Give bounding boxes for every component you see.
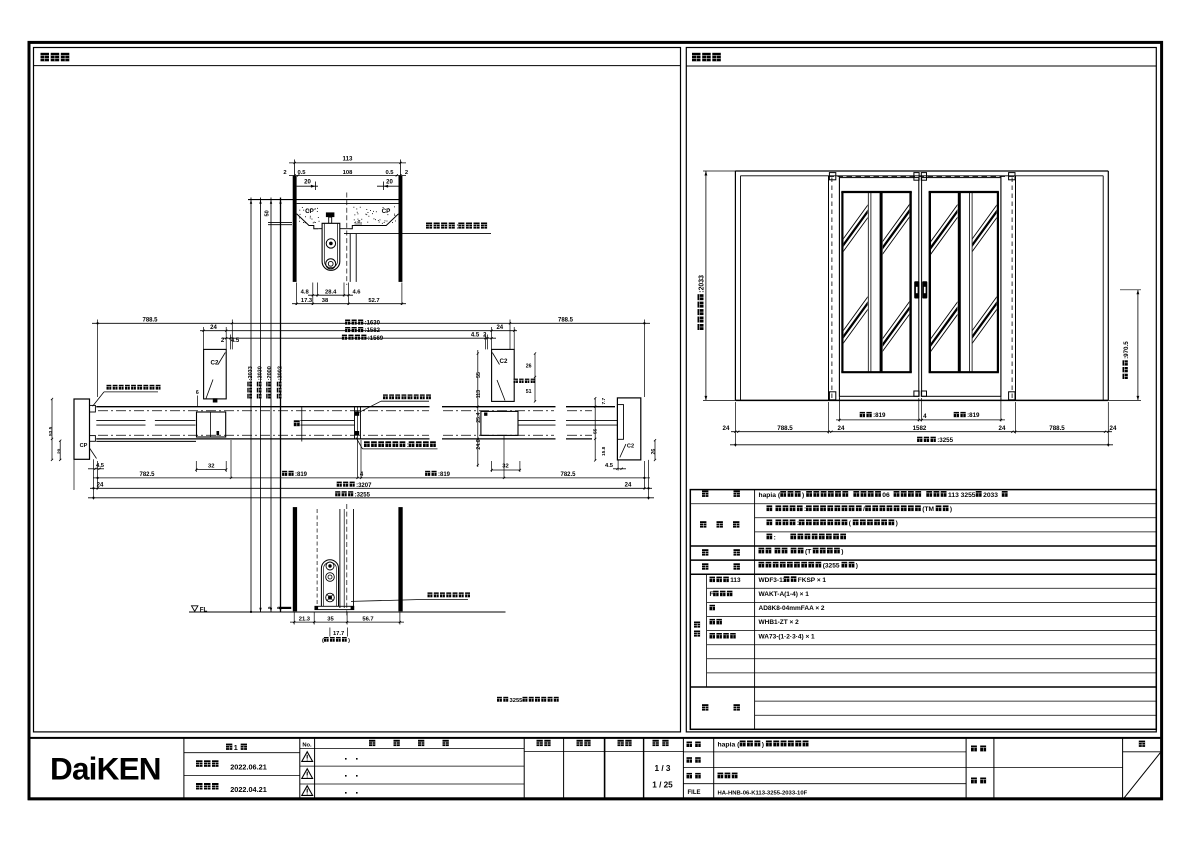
- head seal profile right: [350, 214, 399, 229]
- bottom detail inner lines: [317, 504, 353, 616]
- left cap dim lines: [48, 398, 74, 490]
- dim 20 right: [377, 180, 399, 190]
- svg-text:CP: CP: [80, 443, 88, 449]
- dim frame height 2033: [698, 171, 738, 400]
- row A small dims: [88, 460, 626, 472]
- svg-text::819: :819: [873, 412, 886, 419]
- svg-text:24: 24: [838, 425, 845, 432]
- left jamb box C2: [204, 349, 227, 402]
- svg-text:2: 2: [283, 170, 286, 176]
- dim row 21.3 35 56.7: [290, 616, 404, 623]
- label sectional view 断面図: [41, 53, 70, 62]
- dim line 3255: [88, 491, 654, 499]
- svg-text::819: :819: [438, 472, 451, 478]
- svg-text::3255: :3255: [355, 492, 371, 498]
- svg-text:788.5: 788.5: [1049, 425, 1065, 432]
- label CP right: [382, 208, 391, 215]
- leader hanging rail note: [344, 223, 491, 234]
- svg-text:782.5: 782.5: [139, 472, 155, 478]
- pocket jamb box in band: [197, 412, 226, 437]
- wall left edge: [735, 171, 740, 400]
- top detail lower ext lines: [297, 283, 402, 306]
- band top line: [96, 406, 615, 408]
- hanger bolt head: [326, 212, 335, 223]
- svg-text:3255: 3255: [510, 698, 524, 704]
- door 1 outline: [839, 178, 918, 397]
- svg-text:0.5: 0.5: [385, 170, 394, 176]
- svg-text:6: 6: [196, 390, 199, 396]
- right view panel title line: [686, 65, 1156, 67]
- svg-text:32: 32: [502, 464, 508, 470]
- svg-text:WA73-(1·2·3·4) × 1: WA73-(1·2·3·4) × 1: [759, 633, 816, 640]
- scale 1/3 1/25: [652, 764, 673, 790]
- frame right vertical: [1001, 176, 1016, 400]
- svg-text:20: 20: [386, 180, 393, 186]
- svg-text::: :: [407, 442, 409, 449]
- svg-text:2022.06.21: 2022.06.21: [230, 762, 267, 771]
- svg-text:20: 20: [304, 180, 311, 186]
- wall top lines: [735, 171, 1108, 176]
- svg-text::: :: [456, 224, 458, 231]
- svg-text:C2: C2: [500, 358, 508, 365]
- svg-text:HA-HNB-06-K113-3255-2033-10F: HA-HNB-06-K113-3255-2033-10F: [718, 791, 808, 797]
- label front view 正面図: [692, 53, 721, 62]
- spec table sub labels: [710, 577, 741, 639]
- svg-text:): ): [802, 492, 804, 499]
- band extra bottom line left: [96, 440, 196, 442]
- svg-text:24: 24: [999, 425, 1006, 432]
- svg-text:21.3: 21.3: [299, 616, 311, 622]
- page cell diagonal: [1124, 753, 1161, 799]
- roller lower wheel: [326, 259, 336, 269]
- svg-text::: :: [804, 506, 806, 513]
- svg-text:20: 20: [57, 448, 63, 454]
- bottom dim extension lines: [94, 436, 649, 500]
- dim line 24 3207 24: [90, 482, 652, 490]
- svg-text:(: (: [322, 638, 324, 644]
- svg-text:7.7: 7.7: [601, 397, 607, 404]
- dim row2 24 788.5 24 1582 24 788.5 24: [723, 425, 1117, 433]
- svg-text:108: 108: [343, 170, 353, 176]
- dim line 788.5 1630 788.5: [92, 318, 650, 327]
- svg-text:/: /: [863, 506, 865, 513]
- svg-text:38: 38: [322, 298, 329, 304]
- FL datum marker: [192, 606, 208, 614]
- vertical dimension lines cluster: [250, 198, 282, 614]
- frame left vertical: [829, 176, 840, 400]
- svg-text:782.5: 782.5: [560, 472, 576, 478]
- dim 17.7: [330, 628, 348, 638]
- svg-text:24: 24: [210, 325, 217, 331]
- svg-text::: :: [774, 534, 776, 541]
- svg-text:F: F: [710, 591, 714, 598]
- dim 6 left jamb: [196, 390, 199, 406]
- left wall end cap: [74, 399, 97, 459]
- svg-text::970.5: :970.5: [1123, 341, 1130, 359]
- frame head dashed line: [829, 175, 1016, 177]
- right wall end cap: [617, 398, 640, 460]
- svg-text:hapia (: hapia (: [759, 492, 781, 499]
- svg-text:788.5: 788.5: [558, 318, 574, 324]
- door 2 lite 4 diagonal stripes: [969, 200, 1001, 349]
- hanger rail bracket: [318, 228, 349, 230]
- floor line front view: [735, 399, 1108, 401]
- bottom detail right bar: [398, 507, 402, 611]
- svg-text:4: 4: [357, 219, 360, 224]
- svg-text::3255: :3255: [937, 437, 953, 444]
- DAIKEN logo: [50, 751, 161, 787]
- svg-text:788.5: 788.5: [777, 425, 793, 432]
- svg-text:): ): [762, 741, 764, 748]
- rotated dims 55 113 25.4 24.6: [476, 350, 482, 467]
- note door center: [322, 637, 350, 644]
- svg-text:53.5: 53.5: [48, 426, 54, 436]
- front dim extension lines: [735, 398, 1108, 447]
- svg-text:26: 26: [526, 363, 532, 369]
- svg-text:): ): [896, 520, 898, 527]
- svg-text:2: 2: [405, 170, 408, 176]
- spec table content values: [759, 491, 1008, 640]
- rotated height dimension labels: [247, 366, 283, 398]
- svg-text:788.5: 788.5: [142, 318, 158, 324]
- svg-text::2033: :2033: [698, 275, 705, 293]
- svg-text:50: 50: [265, 210, 271, 216]
- rail base plate: [315, 606, 354, 609]
- svg-text:4.5: 4.5: [471, 333, 480, 339]
- door 1 lite 2 diagonal stripes: [879, 199, 914, 356]
- svg-text:): ): [856, 563, 858, 570]
- top detail left frame bar: [293, 176, 297, 282]
- door 1 glass borders: [841, 192, 912, 372]
- extension lines to jamb boxes: [98, 320, 645, 398]
- svg-text:2022.04.21: 2022.04.21: [230, 785, 267, 794]
- svg-text:26: 26: [651, 449, 657, 455]
- svg-text:35: 35: [327, 616, 334, 622]
- svg-text:WAKT-A(1-4) × 1: WAKT-A(1-4) × 1: [759, 591, 810, 598]
- svg-text:52.7: 52.7: [368, 298, 379, 304]
- door 2 outline: [922, 178, 1001, 397]
- dim row frame width 3255: [730, 437, 1113, 446]
- roller upper wheel: [326, 239, 335, 248]
- revision dots: [345, 758, 358, 794]
- dim 113 extension lines: [295, 160, 401, 176]
- svg-text:51: 51: [526, 389, 532, 395]
- spec table row labels: [694, 491, 740, 711]
- svg-text:2033: 2033: [983, 492, 998, 499]
- svg-text:1 / 3: 1 / 3: [655, 764, 671, 773]
- door corner hardware marks: [829, 173, 1015, 400]
- svg-text:24: 24: [625, 482, 632, 488]
- svg-text:113: 113: [343, 156, 354, 163]
- svg-text:(TM: (TM: [922, 506, 934, 513]
- dim row 2 0.5 108 0.5 2: [283, 170, 408, 176]
- svg-text:24: 24: [723, 425, 730, 432]
- rotated small dims 9 9: [267, 606, 281, 609]
- svg-text::1569: :1569: [368, 336, 384, 342]
- rail screw bottom: [326, 593, 335, 602]
- top detail right frame bar: [399, 176, 403, 282]
- panel glyph in band: [294, 420, 300, 426]
- dim line 782.5 819 4 819 782.5: [93, 471, 650, 479]
- svg-text:28.4: 28.4: [325, 289, 337, 295]
- svg-text:55: 55: [476, 372, 482, 378]
- door panel lines in plan: [96, 420, 617, 425]
- svg-text:4.6: 4.6: [352, 289, 361, 295]
- small dim line at right cap: [593, 397, 608, 461]
- svg-text:): ): [841, 548, 843, 555]
- svg-text:hapia (: hapia (: [718, 741, 741, 748]
- svg-text:4.8: 4.8: [301, 289, 310, 295]
- wall right edge: [1103, 171, 1108, 400]
- door 2 glass borders: [929, 192, 999, 372]
- svg-text:17.7: 17.7: [333, 631, 344, 637]
- roller housing: [322, 223, 340, 270]
- svg-text:56.7: 56.7: [362, 616, 373, 622]
- dim 20 left: [297, 180, 318, 190]
- floor line: [189, 608, 506, 612]
- dim row 4.8 28.4 4.6: [301, 289, 362, 296]
- svg-text::1630: :1630: [365, 321, 381, 327]
- svg-text::1582: :1582: [365, 328, 381, 334]
- dim row door widths 819 4 819: [836, 412, 1005, 421]
- spec table grid: [690, 490, 1156, 730]
- door panel top edges: [350, 234, 356, 282]
- door 1 lite 1 diagonal stripes: [840, 200, 872, 349]
- ceiling line: [248, 199, 399, 201]
- band upper centerline: [98, 410, 592, 412]
- tiny dim 4 at rail: [355, 219, 363, 224]
- floor flat rail: [321, 560, 338, 606]
- svg-text:113: 113: [730, 577, 741, 584]
- svg-text:24: 24: [1110, 425, 1117, 432]
- svg-text:06: 06: [882, 492, 890, 499]
- dim line 24 1582 24: [200, 325, 517, 334]
- svg-text:(3255: (3255: [823, 563, 840, 570]
- band lower centerline: [98, 434, 592, 436]
- left view panel title line: [34, 65, 681, 67]
- svg-text:): ): [950, 506, 952, 513]
- svg-text:(T: (T: [805, 548, 811, 555]
- svg-text:WHB1-ZT × 2: WHB1-ZT × 2: [759, 619, 800, 626]
- svg-text:15.8: 15.8: [601, 446, 607, 456]
- dim handle height 970.5: [1108, 290, 1141, 401]
- vertical joint line in band: [301, 407, 303, 442]
- bottom detail left bar: [293, 507, 297, 611]
- rotated dim 50: [265, 210, 271, 216]
- meeting post in band: [355, 407, 361, 439]
- svg-text:32: 32: [208, 464, 214, 470]
- leader flat rail note: [351, 592, 470, 601]
- head jamb underside line: [297, 202, 399, 204]
- dim row 17.3 38 52.7: [292, 298, 406, 305]
- rail screw middle: [326, 573, 335, 582]
- rail screw top: [326, 562, 334, 570]
- svg-text:DaiKEN: DaiKEN: [50, 751, 161, 787]
- rail centerline dashed: [346, 193, 348, 286]
- svg-text::819: :819: [295, 472, 308, 478]
- svg-text:24.6: 24.6: [476, 439, 482, 449]
- svg-text::3207: :3207: [356, 483, 372, 489]
- svg-text:C2: C2: [627, 443, 634, 449]
- svg-text::: :: [797, 520, 799, 527]
- title block right texts: [687, 741, 1146, 797]
- meeting stile box in band: [481, 411, 518, 435]
- svg-text:1582: 1582: [913, 425, 927, 432]
- bottom detail ext lines: [294, 613, 400, 625]
- right view panel box: [686, 48, 1156, 732]
- svg-text:WDF3-11: WDF3-11: [759, 577, 787, 584]
- wall break double line: [268, 222, 292, 224]
- title block headers: [226, 740, 669, 752]
- svg-text:113 3255: 113 3255: [948, 492, 976, 499]
- leader door stop cap note: [93, 385, 161, 407]
- stipple hatch in head jamb: [299, 206, 396, 223]
- dim 113: [289, 156, 406, 164]
- svg-text::819: :819: [967, 412, 980, 419]
- door handle right: [922, 281, 927, 298]
- footnote width note: [497, 697, 559, 704]
- dim 26 right of cap: [651, 439, 657, 461]
- right jamb box C2: [492, 349, 515, 401]
- svg-text:55: 55: [593, 428, 599, 434]
- mohair seal label: [514, 379, 536, 383]
- label CP left: [305, 208, 314, 215]
- revision date rows: [196, 760, 267, 794]
- title block grid: [29, 738, 1162, 799]
- door handle left: [914, 281, 919, 298]
- leader dashed-line note: [357, 394, 431, 413]
- svg-text:17.3: 17.3: [301, 298, 313, 304]
- svg-text:4: 4: [923, 413, 927, 420]
- svg-text::2033: :2033: [248, 366, 254, 380]
- svg-text:1: 1: [234, 743, 238, 752]
- door 2 lite 3 diagonal stripes: [927, 199, 961, 356]
- svg-text::2000: :2000: [267, 366, 273, 380]
- svg-text:113: 113: [476, 390, 482, 398]
- band bottom line: [96, 438, 592, 440]
- leader door catch note: [356, 438, 438, 450]
- svg-text:AD8K8-04mmFAA × 2: AD8K8-04mmFAA × 2: [759, 605, 825, 612]
- dim 26 51 right jamb: [526, 352, 536, 402]
- svg-text:): ): [348, 638, 350, 644]
- svg-text:4.5: 4.5: [605, 463, 614, 469]
- svg-text::2002: :2002: [278, 366, 284, 380]
- svg-text::2030: :2030: [258, 366, 264, 380]
- head seal profile left: [297, 214, 319, 229]
- svg-text:24: 24: [496, 325, 503, 331]
- svg-text:FILE: FILE: [688, 790, 701, 796]
- svg-text:0.5: 0.5: [297, 170, 306, 176]
- svg-text:FKSP × 1: FKSP × 1: [798, 577, 827, 584]
- dim line 4.5 1569 4.5 2: [221, 333, 496, 345]
- svg-text:No.: No.: [302, 743, 312, 749]
- revision triangles: [302, 752, 313, 796]
- svg-text:1 / 25: 1 / 25: [652, 781, 673, 790]
- left view panel box: [34, 48, 681, 732]
- svg-text:C2: C2: [211, 360, 219, 367]
